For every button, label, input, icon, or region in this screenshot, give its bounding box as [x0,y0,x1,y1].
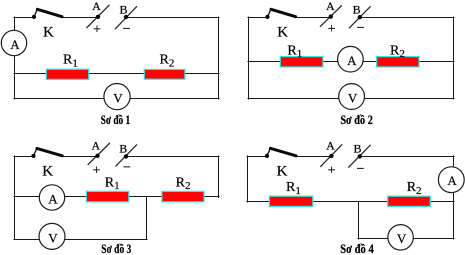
svg-text:A: A [326,139,335,153]
wire: c4 junction vertical between R1 and R2 [358,202,360,240]
resistor R1 (c1) [46,69,88,79]
svg-text:−: − [357,21,365,36]
wire: c4 left vertical [247,156,249,202]
wire: c4 switch blade end to terminal A [296,156,331,158]
ammeter A (c3) [39,185,64,210]
ammeter A (c2) [338,46,364,72]
terminal B / battery − (c3) [116,144,138,166]
wire: c2 right vertical [453,17,455,99]
svg-text:−: − [123,22,131,37]
svg-text:V: V [397,231,407,246]
wire: c1 bottom branch with voltmeter [14,98,219,100]
wire: c3 bottom branch with voltmeter [14,239,147,241]
svg-text:B: B [353,142,361,156]
terminal A / battery + (c4) [320,144,342,167]
svg-text:A: A [326,0,335,13]
wire: c3 middle branch with ammeter and resistors [14,196,219,198]
svg-text:A: A [91,138,100,152]
voltmeter V (c1) [104,84,130,110]
resistor R1 (c2) [280,57,323,67]
voltmeter V (c3) [39,223,65,249]
svg-text:K: K [43,25,54,41]
terminal A / battery + (c3) [88,143,110,165]
wire: c1 middle branch with resistors [14,73,219,75]
voltmeter V (c2) [339,84,365,110]
wire: c2 switch blade end to terminal A [296,17,332,19]
svg-text:Sơ đồ 2: Sơ đồ 2 [340,113,373,127]
voltmeter V (c4) [388,225,413,250]
wire: c2 bottom branch with voltmeter [248,98,454,100]
svg-text:K: K [277,25,288,41]
wire: c3 left vertical [14,156,16,240]
wire: c1 terminal B to top-right corner [126,17,219,19]
wire: c3 terminal B to top-right corner [126,156,219,158]
svg-text:V: V [348,91,358,106]
wire: c3 junction vertical between R1 and R2 [146,197,148,240]
resistor R2 (c2) [377,57,419,67]
terminal A / battery + (c2) [320,5,342,26]
svg-text:+: + [328,164,336,179]
wire: c1 switch blade end to terminal A [62,17,98,19]
wire: c1 left vertical [14,17,16,99]
terminal B / battery − (c1) [115,6,137,29]
resistor R2 (c1) [144,69,185,79]
svg-text:A: A [10,37,20,52]
svg-text:Sơ đồ 3: Sơ đồ 3 [101,242,131,255]
svg-text:Sơ đồ 1: Sơ đồ 1 [101,113,131,127]
resistor R1 (c3) [86,191,128,201]
svg-text:+: + [328,22,336,37]
svg-text:B: B [119,142,127,156]
wire: c4 bottom branch with voltmeter [358,238,454,240]
wire: c2 top-left corner to switch pivot [248,17,268,19]
svg-text:−: − [356,162,364,177]
svg-text:V: V [113,91,123,106]
ammeter A (c4) [438,167,464,193]
wire: c3 top-left corner to switch pivot [14,156,34,158]
wire: c1 top-left corner to switch pivot [14,17,34,19]
svg-text:V: V [48,230,58,245]
resistor R2 (c3) [162,191,204,201]
resistor R2 (c4) [388,196,431,206]
svg-text:Sơ đồ 4: Sơ đồ 4 [340,242,374,255]
svg-text:−: − [123,161,131,176]
wire: c4 middle branch with resistors [247,201,454,203]
wire: c2 middle branch with resistors and ammeter [248,61,454,63]
terminal B / battery − (c2) [349,6,371,28]
svg-text:B: B [119,3,127,17]
svg-text:A: A [447,173,457,188]
terminal B / battery − (c4) [348,145,370,168]
terminal A / battery + (c1) [87,5,110,28]
svg-text:A: A [347,53,357,68]
wire: c4 top-left corner to switch pivot [247,156,267,158]
wire: c3 right vertical [218,156,220,198]
ammeter A (c1) [1,30,26,55]
svg-text:B: B [353,2,361,16]
svg-text:+: + [93,23,101,38]
svg-text:A: A [92,0,101,13]
svg-text:+: + [93,163,101,178]
wire: c4 terminal B to top-right corner [360,156,454,158]
wire: c1 right vertical [218,17,220,99]
wire: c3 switch blade end to terminal A [62,156,98,158]
svg-text:K: K [277,163,288,179]
switch K (c3) [31,148,62,158]
switch K (c2) [265,9,295,19]
switch K (c1) [32,9,62,19]
wire: c2 terminal B to top-right corner [360,17,455,19]
wire: c4 right vertical with ammeter [453,156,455,239]
wire: c2 left vertical [248,17,250,99]
switch K (c4) [265,148,296,158]
svg-text:A: A [48,191,58,206]
resistor R1 (c4) [269,196,313,206]
svg-text:K: K [42,163,53,179]
